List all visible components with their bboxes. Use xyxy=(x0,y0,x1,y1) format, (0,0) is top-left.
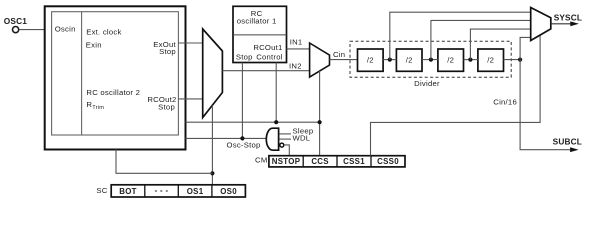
svg-text:Control: Control xyxy=(256,52,283,61)
junction dot tap Cin/16 xyxy=(518,58,522,62)
wire divider output Cin/16 xyxy=(504,59,521,61)
svg-text:RC oscillator 2: RC oscillator 2 xyxy=(86,88,140,97)
svg-text:CM: CM xyxy=(255,155,267,164)
svg-text:OSC1: OSC1 xyxy=(4,16,27,26)
junction dot tap Cin/8 xyxy=(468,58,472,62)
wire Osc-Stop net from module to gate G1 xyxy=(186,137,268,139)
svg-text:Oscin: Oscin xyxy=(55,24,76,33)
wire RCOut2 to mux M1 xyxy=(178,98,202,100)
svg-text:SUBCL: SUBCL xyxy=(553,137,582,147)
oscillator module inner box xyxy=(52,12,179,135)
svg-text:/2: /2 xyxy=(487,56,494,65)
svg-text:IN1: IN1 xyxy=(290,37,303,46)
wire NSTOP to gate bubble xyxy=(284,145,289,156)
junction dot select/module feedback xyxy=(210,171,214,175)
divider stage /2 A xyxy=(358,49,384,71)
mux M3 (SYSCL select) xyxy=(531,8,551,41)
wire module bottom to select junction xyxy=(116,150,212,174)
wire Cin from mux M2 to divider xyxy=(330,59,358,61)
svg-text:Cin/16: Cin/16 xyxy=(493,98,517,107)
svg-text:CSS0: CSS0 xyxy=(377,157,399,166)
svg-text:CSS1: CSS1 xyxy=(343,157,365,166)
svg-text:Cin: Cin xyxy=(333,50,345,59)
svg-text:OS0: OS0 xyxy=(220,187,237,196)
mux M2 (clock source select) xyxy=(310,43,330,77)
svg-text:/2: /2 xyxy=(447,56,454,65)
svg-text:Osc-Stop: Osc-Stop xyxy=(227,140,261,149)
wire Control pin down to control net xyxy=(275,63,277,123)
register CM box xyxy=(269,156,405,167)
wire stop/control net from module to CCS node xyxy=(186,121,320,123)
svg-text:/2: /2 xyxy=(367,56,374,65)
divider stage /2 D xyxy=(478,49,504,71)
svg-text:Stop: Stop xyxy=(159,47,176,56)
junction dot tap Cin/2 xyxy=(388,58,392,62)
junction dot CCS/control net xyxy=(318,120,322,124)
wire divider chain B-C xyxy=(422,59,438,61)
register SC cell dividers xyxy=(144,185,146,197)
divider dashed box xyxy=(350,41,511,77)
wire tap Cin/16 to mux M3 xyxy=(520,37,531,59)
wire Stop pin down to Osc-Stop net xyxy=(241,63,243,139)
RC oscillator 1 box U2 xyxy=(233,6,287,62)
svg-text:WDL: WDL xyxy=(293,133,311,142)
wire tap Cin/4 to mux M3 xyxy=(431,20,531,59)
wire mux M2 select from CCS xyxy=(319,71,321,156)
svg-text:Stop: Stop xyxy=(158,103,175,112)
svg-text:- - -: - - - xyxy=(155,186,169,195)
wire CSS select to SYSCL mux M3 xyxy=(371,35,541,156)
junction dot Stop/Osc-Stop xyxy=(240,136,244,140)
divider stage /2 C xyxy=(438,49,464,71)
Oscin column separator xyxy=(81,12,83,135)
arrowhead SUBCL xyxy=(570,147,579,152)
wire mux M1 output to IN2 xyxy=(222,70,309,72)
wire ExOut to mux M1 xyxy=(178,42,202,44)
svg-text:BOT: BOT xyxy=(119,187,137,196)
wire SYSCL output xyxy=(551,23,571,25)
svg-text:oscillator 1: oscillator 1 xyxy=(237,17,277,26)
svg-text:OS1: OS1 xyxy=(187,187,204,196)
wire divider chain C-D xyxy=(464,59,478,61)
register SC box xyxy=(111,185,245,197)
wire tap Cin/8 to mux M3 xyxy=(470,29,530,59)
wire OSC1 to oscillator block xyxy=(19,29,45,31)
oscillator module outer box xyxy=(45,6,186,149)
wire divider chain A-B xyxy=(383,59,396,61)
mux M1 (oscillator select) xyxy=(203,29,223,118)
svg-text:Exin: Exin xyxy=(86,41,102,50)
wire RCOut1 to IN1 xyxy=(287,48,310,50)
svg-text:Stop: Stop xyxy=(236,52,253,61)
svg-text:IN2: IN2 xyxy=(289,61,302,70)
junction dot Control/control net xyxy=(274,120,278,124)
svg-text:CCS: CCS xyxy=(311,157,329,166)
wire Cin/16 down to SUBCL xyxy=(520,60,571,150)
svg-text:RCOut1: RCOut1 xyxy=(253,43,282,52)
RC oscillator 1 internal divider xyxy=(233,34,287,36)
wire Sleep input xyxy=(280,133,292,135)
register CM cell dividers xyxy=(302,156,304,167)
svg-text:NSTOP: NSTOP xyxy=(272,157,301,166)
pin OSC1 terminal circle xyxy=(13,27,19,33)
svg-text:SC: SC xyxy=(96,186,107,195)
svg-text:Ext. clock: Ext. clock xyxy=(86,27,121,36)
gate G1 inverted input bubble xyxy=(280,143,284,147)
arrowhead SYSCL xyxy=(570,21,579,26)
wire WDL input xyxy=(280,138,292,140)
svg-text:SYSCL: SYSCL xyxy=(554,12,582,22)
wire mux M1 select from SC register OS bits xyxy=(211,105,213,185)
svg-text:Divider: Divider xyxy=(414,79,440,88)
divider stage /2 B xyxy=(396,49,422,71)
junction dot tap Cin/4 xyxy=(429,58,433,62)
gate G1 (AND, sleep/WDL stop) xyxy=(266,128,278,150)
wire tap Cin/2 to mux M3 xyxy=(390,12,531,59)
svg-text:/2: /2 xyxy=(406,56,413,65)
